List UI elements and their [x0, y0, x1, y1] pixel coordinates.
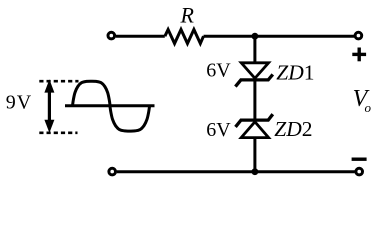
amplitude arrow	[44, 79, 54, 132]
wire vertical lower	[253, 138, 256, 172]
svg-text:ZD1: ZD1	[276, 60, 314, 84]
zener ZD1	[235, 63, 272, 87]
terminal bottom-left	[109, 168, 116, 175]
label plus	[352, 48, 366, 62]
dashed peak line top	[39, 80, 78, 83]
wire bottom	[117, 170, 355, 173]
dashed peak line bottom	[39, 131, 77, 134]
terminal top-left	[108, 32, 115, 39]
resistor R	[165, 30, 204, 44]
ac source sine negative hump	[110, 106, 150, 131]
svg-text:R: R	[180, 3, 195, 28]
svg-text:6V: 6V	[206, 60, 231, 82]
wire top left	[116, 35, 165, 38]
ac source sine positive hump	[73, 81, 111, 106]
zener ZD2	[236, 114, 273, 137]
terminal bottom-right	[356, 168, 363, 175]
svg-text:9V: 9V	[6, 92, 32, 114]
terminal top-right	[355, 32, 362, 39]
wire vertical upper	[253, 36, 256, 63]
node junction bottom	[252, 168, 259, 175]
ac source sine axis	[65, 104, 155, 107]
svg-text:ZD2: ZD2	[274, 117, 312, 141]
label minus	[352, 157, 367, 160]
wire top right	[204, 35, 355, 38]
node junction top	[252, 33, 259, 40]
svg-text:o: o	[365, 100, 372, 115]
wire vertical middle	[253, 80, 256, 120]
svg-text:6V: 6V	[206, 119, 231, 141]
